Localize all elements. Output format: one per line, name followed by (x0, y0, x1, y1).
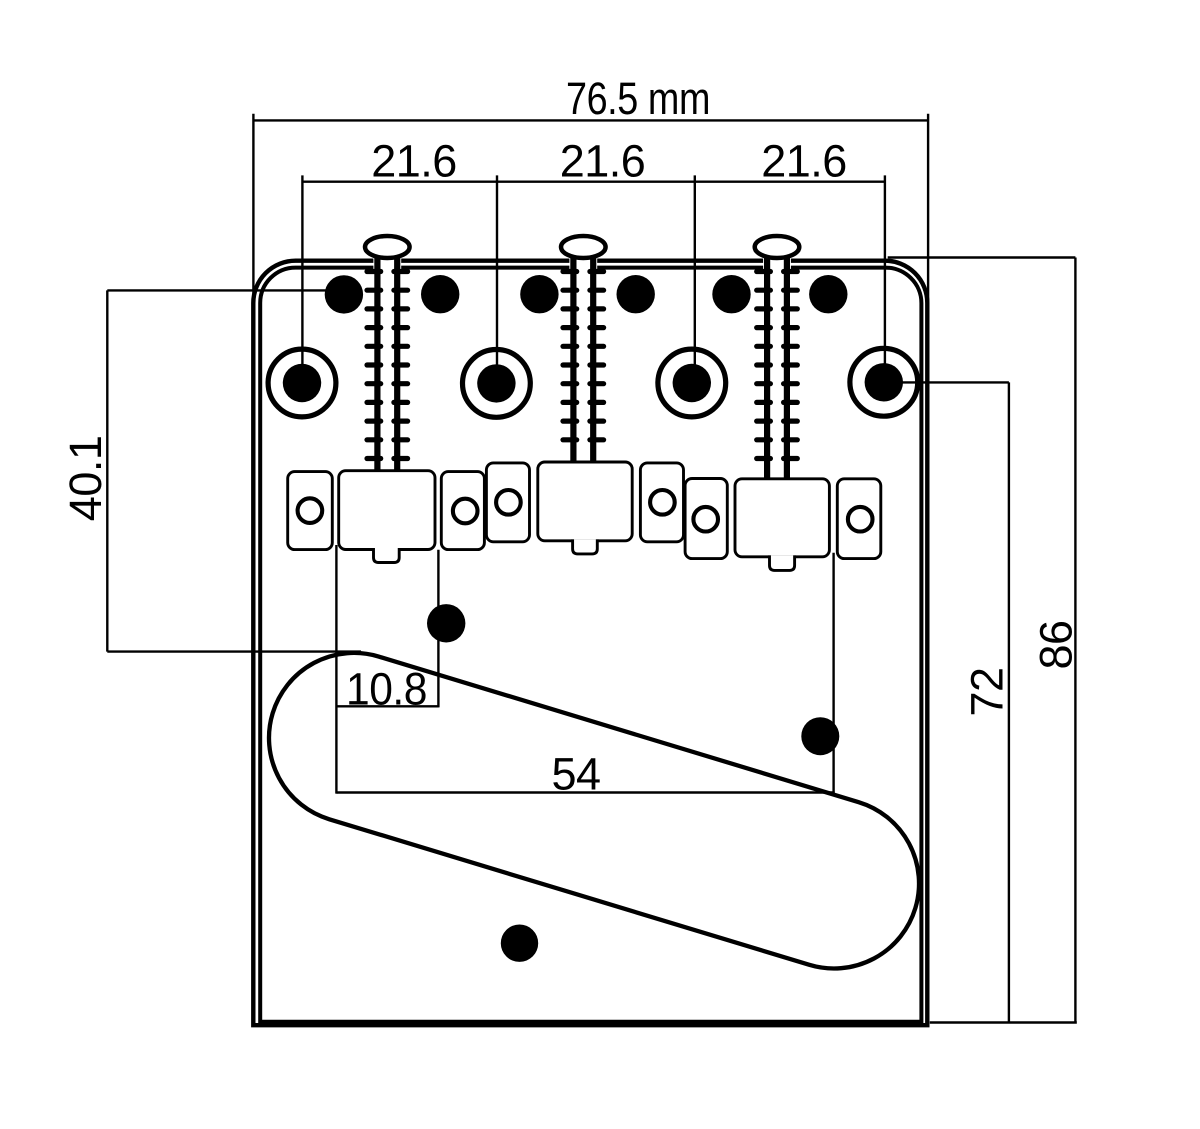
extension line 10.8 right (437, 550, 439, 708)
intonation screw 3 head (755, 236, 800, 258)
string hole 6 (809, 275, 847, 313)
saddle 1 left spring block (288, 472, 333, 550)
svg-text:21.6: 21.6 (560, 136, 646, 187)
saddle 3 bottom tab (770, 555, 795, 570)
saddle 1 left screw hole (298, 498, 323, 523)
intonation screw 2 shaft (569, 256, 597, 467)
string hole 4 (617, 275, 655, 313)
saddle 2 right screw hole (650, 490, 675, 515)
svg-text:21.6: 21.6 (371, 136, 457, 187)
dimension line 76.5 (253, 119, 928, 121)
mounting hole 3 center (673, 364, 711, 402)
intonation screw 1 head (365, 236, 410, 258)
intonation screw 2 head (561, 236, 606, 258)
saddle 3 left screw hole (693, 507, 718, 532)
svg-text:40.1: 40.1 (60, 436, 111, 522)
pickup screw hole bottom (501, 925, 538, 962)
pickup rout opening (248, 632, 940, 990)
saddle 2 right spring block (640, 463, 683, 542)
extension line hole 1 (301, 175, 303, 383)
dimension line 10.8 (336, 705, 438, 707)
extension line hole 4 (884, 175, 886, 382)
svg-text:10.8: 10.8 (346, 663, 427, 714)
string hole 1 (325, 275, 363, 313)
extension line 76.5 right (927, 114, 929, 312)
saddle 1 bottom tab (374, 548, 400, 563)
saddle 1 body (339, 471, 435, 550)
saddle 2 left spring block (486, 463, 529, 542)
svg-text:54: 54 (551, 749, 600, 800)
saddle 3 right screw hole (848, 507, 873, 532)
extension line hole 3 (694, 175, 696, 383)
extension line hole 2 (496, 175, 498, 383)
intonation screw 2 threads (563, 272, 604, 440)
mounting hole 1 countersink ring (268, 349, 336, 417)
svg-text:86: 86 (1030, 620, 1081, 669)
mounting hole 4 center (865, 363, 903, 401)
svg-text:76.5 mm: 76.5 mm (566, 73, 710, 124)
pickup screw hole upper-left (427, 604, 465, 642)
saddle 3 left spring block (685, 479, 727, 559)
dimension line 40.1 (106, 290, 108, 651)
mounting hole 3 countersink ring (658, 349, 726, 417)
extension line 76.5 left (252, 114, 254, 300)
extension line 54 right (832, 553, 834, 794)
string hole 3 (520, 275, 558, 313)
saddle 2 body (538, 462, 632, 541)
dimension line 86 (1074, 258, 1076, 1023)
saddle 1 right spring block (441, 472, 484, 550)
extension line 40.1 top (107, 289, 325, 291)
dimension line 21.6 row (302, 180, 885, 182)
saddle 2 left screw hole (496, 490, 521, 515)
mounting hole 4 countersink ring (850, 348, 918, 416)
saddle 1 right screw hole (453, 499, 478, 524)
bridge plate inner lip outline (260, 268, 921, 1022)
extension line 72 top (884, 381, 1009, 383)
intonation screw 3 shaft (763, 256, 791, 483)
dimension line 54 (336, 791, 834, 793)
saddle 2 bottom tab (573, 539, 598, 554)
saddle 3 right spring block (837, 479, 881, 559)
saddle 3 body (735, 479, 829, 557)
string hole 5 (712, 275, 750, 313)
bridge plate outer outline (253, 261, 927, 1025)
svg-text:21.6: 21.6 (761, 136, 847, 187)
intonation screw 1 threads (367, 272, 408, 459)
extension line 40.1 bottom (107, 650, 361, 652)
intonation screw 1 shaft (373, 256, 401, 475)
mounting hole 1 center (283, 364, 321, 402)
intonation screw 3 threads (757, 272, 798, 459)
extension line 86 top (888, 256, 1076, 258)
pickup screw hole right (801, 717, 839, 755)
extension line 10.8-54 left (335, 545, 337, 794)
mounting hole 2 countersink ring (463, 350, 531, 418)
extension line 72-86 bottom (930, 1021, 1077, 1023)
mounting hole 2 center (477, 364, 515, 402)
svg-text:72: 72 (962, 667, 1013, 716)
dimension line 72 (1008, 382, 1010, 1022)
string hole 2 (421, 275, 459, 313)
